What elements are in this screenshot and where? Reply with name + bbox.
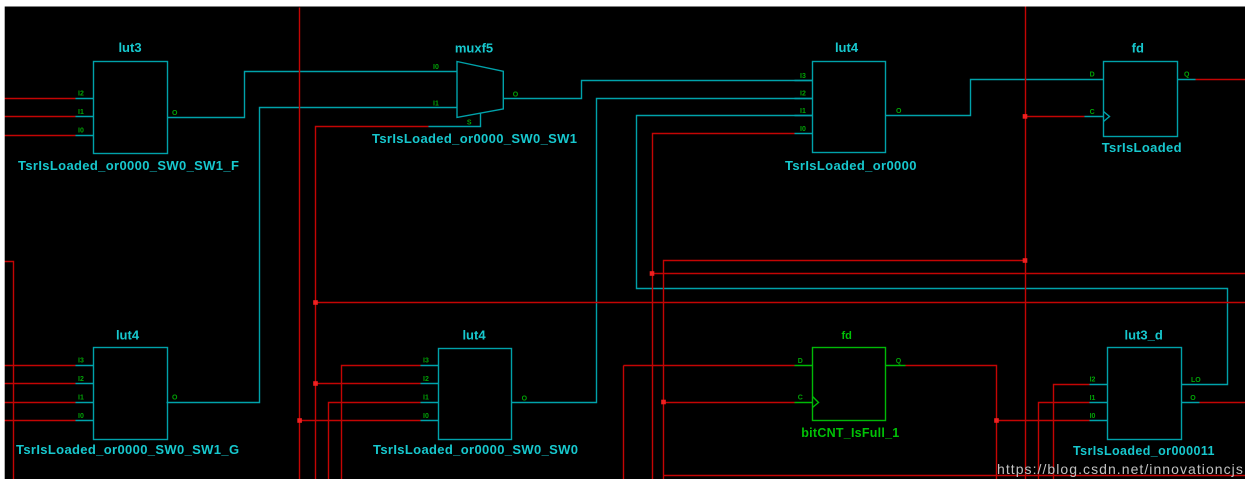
- svg-text:I2: I2: [423, 376, 429, 383]
- svg-text:O: O: [172, 110, 178, 117]
- svg-text:I0: I0: [78, 413, 84, 420]
- svg-text:O: O: [172, 395, 178, 402]
- svg-text:I0: I0: [433, 64, 439, 71]
- svg-text:muxf5: muxf5: [455, 41, 493, 56]
- svg-text:I3: I3: [800, 73, 806, 80]
- svg-text:O: O: [522, 395, 528, 402]
- svg-text:TsrIsLoaded_or0000_SW0_SW1_F: TsrIsLoaded_or0000_SW0_SW1_F: [18, 158, 239, 173]
- svg-text:I1: I1: [78, 395, 84, 402]
- svg-text:O: O: [896, 108, 902, 115]
- svg-text:I0: I0: [423, 413, 429, 420]
- svg-text:lut3: lut3: [118, 40, 141, 55]
- svg-text:https://blog.csdn.net/innovati: https://blog.csdn.net/innovationcjs: [997, 461, 1244, 477]
- svg-text:I0: I0: [1090, 413, 1096, 420]
- svg-text:D: D: [1090, 72, 1095, 79]
- svg-text:I1: I1: [1090, 395, 1096, 402]
- svg-text:lut4: lut4: [116, 328, 140, 343]
- svg-text:TsrIsLoaded_or0000_SW0_SW0: TsrIsLoaded_or0000_SW0_SW0: [373, 442, 578, 457]
- svg-text:I2: I2: [800, 91, 806, 98]
- svg-text:Q: Q: [1184, 72, 1190, 79]
- svg-text:I3: I3: [78, 358, 84, 365]
- svg-text:fd: fd: [1132, 41, 1144, 56]
- svg-text:D: D: [798, 358, 803, 365]
- svg-text:O: O: [1190, 395, 1196, 402]
- svg-text:O: O: [513, 91, 519, 98]
- svg-text:TsrIsLoaded_or0000_SW0_SW1_G: TsrIsLoaded_or0000_SW0_SW1_G: [16, 442, 239, 457]
- svg-text:TsrIsLoaded_or000011: TsrIsLoaded_or000011: [1073, 444, 1215, 458]
- svg-text:TsrIsLoaded: TsrIsLoaded: [1102, 140, 1182, 155]
- svg-text:I3: I3: [423, 358, 429, 365]
- svg-text:I0: I0: [78, 128, 84, 135]
- svg-text:TsrIsLoaded_or0000_SW0_SW1: TsrIsLoaded_or0000_SW0_SW1: [372, 131, 577, 146]
- svg-text:I2: I2: [78, 376, 84, 383]
- svg-text:I1: I1: [433, 101, 439, 108]
- svg-text:I1: I1: [78, 109, 84, 116]
- svg-text:lut4: lut4: [835, 40, 859, 55]
- svg-text:Q: Q: [896, 358, 902, 365]
- svg-text:C: C: [1090, 109, 1095, 116]
- svg-text:TsrIsLoaded_or0000: TsrIsLoaded_or0000: [785, 158, 917, 173]
- svg-text:fd: fd: [842, 330, 852, 342]
- svg-text:I1: I1: [800, 108, 806, 115]
- svg-text:LO: LO: [1191, 377, 1201, 384]
- svg-text:S: S: [467, 119, 472, 126]
- svg-text:I2: I2: [78, 91, 84, 98]
- svg-text:I2: I2: [1090, 377, 1096, 384]
- svg-text:bitCNT_IsFull_1: bitCNT_IsFull_1: [801, 426, 899, 440]
- svg-text:C: C: [798, 395, 803, 402]
- svg-text:I0: I0: [800, 126, 806, 133]
- svg-text:lut3_d: lut3_d: [1125, 328, 1163, 343]
- svg-text:I1: I1: [423, 395, 429, 402]
- svg-text:lut4: lut4: [462, 328, 486, 343]
